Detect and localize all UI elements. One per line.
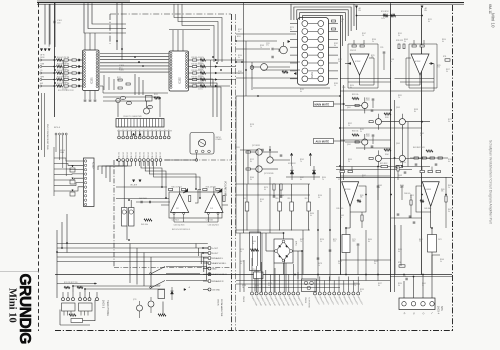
wire CN105 stub <box>203 252 208 254</box>
arrow into IC pin <box>79 66 81 68</box>
node junction 54 <box>66 242 68 244</box>
svg-text:R10 4k7 C11 33k: R10 4k7 C11 33k <box>57 77 69 79</box>
wire bus drop to jack 3 <box>143 253 145 287</box>
wire to center divider <box>206 59 244 61</box>
wire lower run y93 <box>103 92 168 94</box>
wire audio bus 4 <box>57 256 208 258</box>
svg-text:R212: R212 <box>250 159 254 161</box>
wire CN103 pin lead <box>155 131 157 136</box>
wire loop around IC202b <box>409 44 437 88</box>
arrow signal at IC201 pin <box>294 72 296 74</box>
capacitor C651 <box>415 163 418 165</box>
switch S751 lever upper <box>152 267 166 274</box>
wire resistor top lead <box>246 184 248 202</box>
wire nest left-section 1 <box>174 4 222 62</box>
svg-text:C121: C121 <box>117 79 121 81</box>
svg-text:R282: R282 <box>334 43 338 45</box>
arrow vol feed a <box>132 180 134 182</box>
svg-text:R485: R485 <box>338 261 342 263</box>
resistor R651 top <box>420 170 424 172</box>
test point TP101 <box>116 98 120 102</box>
svg-text:R311 R312: R311 R312 <box>380 163 388 165</box>
wire Q collector <box>377 114 379 119</box>
svg-text:FROM MAIN PWB: FROM MAIN PWB <box>220 299 223 317</box>
diode D753 bar <box>171 290 174 292</box>
wire CN104 pin lead <box>118 161 120 166</box>
capacitor C693 <box>413 221 416 223</box>
svg-text:CN GND: CN GND <box>212 289 220 291</box>
node jack contact x97 <box>96 298 99 301</box>
wire CN108 lead up <box>269 275 271 293</box>
svg-text:Q751: Q751 <box>133 299 137 301</box>
arrow vol feed b <box>139 180 141 182</box>
svg-text:C551: C551 <box>236 147 240 149</box>
svg-text:IC130: IC130 <box>92 162 95 169</box>
resistor R701 zigzag <box>383 14 388 16</box>
relay RL751 box <box>250 232 261 271</box>
wire jack lead up <box>67 292 69 298</box>
node CN105 SPEAKER R <box>208 280 211 283</box>
resistor R305 base <box>355 104 359 106</box>
wire diode row tie <box>286 176 320 178</box>
wire ch1 out to ch2 in <box>195 190 201 204</box>
wire switch out 2 <box>166 273 200 275</box>
svg-text:R121: R121 <box>428 19 432 21</box>
svg-text:R534: R534 <box>398 283 402 285</box>
svg-text:R405 100k: R405 100k <box>141 224 148 226</box>
wire resistor bottom lead <box>291 211 293 231</box>
capacitor C101 <box>53 21 55 24</box>
node CN103 pin 7 <box>143 136 146 139</box>
arrow into IC202a <box>349 62 351 64</box>
svg-text:6k: 6k <box>300 91 302 93</box>
resistor R122 <box>72 65 76 67</box>
wire R662 top <box>445 177 447 196</box>
node JACK4 pin 2 <box>411 302 415 306</box>
wire lower run y97 <box>103 96 160 98</box>
svg-text:C413 100p R415: C413 100p R415 <box>174 225 185 227</box>
node CN104 pin 7 <box>143 159 146 162</box>
wire tie y148 <box>356 147 391 149</box>
wire nest 5 <box>303 15 343 46</box>
svg-text:R527: R527 <box>378 283 382 285</box>
svg-text:IC551: IC551 <box>338 179 342 181</box>
volume amp box bottom dash-dot <box>114 267 231 269</box>
node input terminal PHONO <box>40 59 42 61</box>
node PW107 pin 1 <box>55 133 57 135</box>
node junction 3 <box>54 82 56 84</box>
wire input row AUX <box>42 85 56 87</box>
node junction 61 <box>317 274 319 276</box>
resistor R64 cluster <box>438 157 442 159</box>
wire IC101 top pin x95 <box>94 33 96 50</box>
svg-text:7k: 7k <box>260 47 262 49</box>
node CN104 pin 5 <box>134 159 137 162</box>
IC401a base pin circles <box>173 212 175 214</box>
wire <box>197 72 200 74</box>
svg-text:R471: R471 <box>240 261 244 263</box>
node junction 8 <box>142 65 144 67</box>
wire x262 drop <box>261 233 263 292</box>
svg-text:+B2: +B2 <box>424 8 427 10</box>
wire Q202 out <box>267 66 290 68</box>
wire resistor top lead <box>279 184 281 202</box>
wire bus segment 1 <box>54 158 83 161</box>
wire row y88 <box>253 87 330 89</box>
wire jog R671 <box>431 227 432 229</box>
svg-text:R10 4k7 C11 33k: R10 4k7 C11 33k <box>57 64 69 66</box>
wire rail x422 <box>421 8 423 275</box>
capacitor C127 ellipse <box>147 105 152 108</box>
svg-text:R184: R184 <box>448 159 452 161</box>
capacitor C107 <box>94 99 97 101</box>
wire Q emitter <box>401 162 403 167</box>
svg-text:R107: R107 <box>362 33 366 35</box>
node CN108 pin 4 <box>264 292 267 295</box>
resistor R553 power <box>290 202 294 211</box>
svg-text:C341: C341 <box>366 100 370 102</box>
wire CN108 lead up <box>279 275 281 293</box>
resistor R662 <box>445 196 447 202</box>
svg-text:R201: R201 <box>237 36 241 38</box>
transistor Q306 mute <box>399 155 405 161</box>
svg-text:Mini 10: Mini 10 <box>491 13 496 28</box>
node junction 46 <box>345 227 347 229</box>
svg-text:9k: 9k <box>398 177 400 179</box>
capacitor C303 <box>372 98 375 100</box>
svg-text:R513: R513 <box>268 283 272 285</box>
wire to IC101 pin <box>76 66 82 68</box>
wire nest left-section 2 <box>178 4 218 62</box>
wire row y150 stub <box>240 149 258 151</box>
svg-text:R429: R429 <box>448 209 452 211</box>
wire <box>68 66 72 68</box>
node JACK4 pin 3 <box>421 302 425 306</box>
wire bus drop to jack 2 <box>136 248 138 285</box>
svg-text:3k: 3k <box>255 287 257 289</box>
wire Q emitter <box>377 162 379 167</box>
wire bus y287.5 <box>248 287 340 289</box>
wire feedback IC202b <box>406 58 420 85</box>
node jack contact x80 <box>79 298 82 301</box>
bottom dash-dot section border <box>55 330 453 332</box>
pot wiper arrow <box>72 190 73 191</box>
wire jack drop left <box>59 310 61 326</box>
node CN103 pin 1 <box>118 136 121 139</box>
wire row y82 left <box>348 81 391 83</box>
IC201 right pin stubs <box>329 23 339 25</box>
wire x240 drop <box>239 233 241 292</box>
svg-text:R170: R170 <box>400 185 404 187</box>
wire from TP101 <box>117 103 119 117</box>
left dashed section border <box>38 3 40 331</box>
wire resistor top lead <box>308 184 310 202</box>
wire IC651 output down <box>430 206 432 228</box>
svg-text:PHON: PHON <box>40 57 44 59</box>
wire bridge to CN106 <box>301 251 303 279</box>
node input pad CN208 <box>250 66 254 70</box>
wire left feed <box>265 233 267 251</box>
wire CN108 lead up <box>274 268 276 292</box>
svg-text:R408: R408 <box>398 175 402 177</box>
svg-text:1k: 1k <box>378 187 380 189</box>
connector CN106 box <box>302 279 317 292</box>
wire CN109 lead up <box>324 281 326 293</box>
resistor R135 <box>193 85 197 87</box>
svg-text:R394: R394 <box>322 177 326 179</box>
svg-text:4k: 4k <box>428 21 430 23</box>
svg-text:7k: 7k <box>300 161 302 163</box>
motor M101 symbol <box>198 139 205 146</box>
svg-text:R225: R225 <box>437 65 441 67</box>
IC201 internal connect lines <box>308 23 318 25</box>
node CN103 pin 13 <box>167 136 170 139</box>
svg-text:R520: R520 <box>354 283 358 285</box>
wire IC102 top pin x183 <box>182 30 184 51</box>
resistor R302 zigzag <box>352 134 359 136</box>
node input terminal AUX <box>40 85 42 87</box>
node CN105 L-OUT <box>208 247 211 250</box>
potentiometer VR102 <box>70 180 75 184</box>
resistor R145 zigzag <box>200 85 206 87</box>
transistor Q303 mute <box>399 119 405 125</box>
resistor R4102 <box>182 188 186 190</box>
wire relay to connector 2 <box>257 271 259 293</box>
wire CN105 stub <box>203 262 208 264</box>
capacitor C115 <box>78 85 80 88</box>
resistor R182 zigzag <box>158 314 166 316</box>
svg-text:R13 10k C14 47k: R13 10k C14 47k <box>192 57 205 59</box>
capacitor C691 <box>404 171 407 173</box>
capacitor C400 electrolytic body <box>122 208 128 227</box>
wire x303 drop <box>302 230 304 275</box>
wire feed to input L <box>44 4 46 44</box>
wire box around volume amps <box>169 192 222 218</box>
wire x298 drop <box>297 251 299 279</box>
svg-text:33k: 33k <box>441 191 444 193</box>
svg-text:C696 47u: C696 47u <box>404 193 411 195</box>
wire CN104 pin lead <box>122 161 124 166</box>
wire <box>197 79 200 81</box>
capacitor C661 <box>409 215 412 217</box>
wire from label box <box>334 103 346 105</box>
motor internal mark <box>199 141 205 145</box>
wire tie y195 <box>236 194 310 196</box>
resistor R671 tall body <box>428 235 437 253</box>
wire x318 drop <box>317 210 319 281</box>
svg-text:0.22: 0.22 <box>419 241 422 243</box>
resistor R101 zigzag <box>57 59 63 61</box>
motor M101 box <box>190 133 214 155</box>
wire Q collector <box>401 114 403 119</box>
resistor R144 zigzag <box>200 78 206 80</box>
wire CN104 pin lead <box>151 161 153 166</box>
IC201 tone/selector body <box>298 18 329 86</box>
capacitor C125 ellipse <box>120 96 125 99</box>
svg-text:PW107 FROM FRONT PWB: PW107 FROM FRONT PWB <box>46 124 48 150</box>
node input terminal CD <box>40 72 42 74</box>
node junction 36 <box>356 15 358 17</box>
node junction 47 <box>365 194 367 196</box>
svg-text:R421 4.7k C421 R425 4.7k: R421 4.7k C421 R425 4.7k <box>172 229 190 231</box>
node junction 43 <box>421 121 423 123</box>
svg-text:1k: 1k <box>320 241 322 243</box>
wire jack lead up <box>96 292 98 298</box>
node jack contact x63 <box>62 298 65 301</box>
svg-text:R10 4k7 C11 33k: R10 4k7 C11 33k <box>57 70 69 72</box>
svg-text:R142: R142 <box>338 59 342 61</box>
wire arrow drop 1 <box>291 156 293 166</box>
wire R211 feed <box>353 40 355 44</box>
wire x434 drop <box>433 64 435 92</box>
node junction 38 <box>390 109 392 111</box>
node jack contact x73 <box>72 298 75 301</box>
resistor R105 zigzag <box>57 85 63 87</box>
svg-text:R198: R198 <box>390 59 394 61</box>
svg-text:2k: 2k <box>372 41 374 43</box>
wire main left rail x54 <box>54 3 56 117</box>
wire drop from IC101 right <box>108 77 110 90</box>
svg-text:R324: R324 <box>350 85 354 87</box>
svg-text:33k: 33k <box>360 197 363 199</box>
capacitor C401 polarity circle <box>129 210 133 214</box>
svg-text:2k: 2k <box>242 287 244 289</box>
wire IC101 bottom drop <box>89 91 91 100</box>
wire row y230 <box>236 229 310 231</box>
label box MAIN MUTE upper <box>314 102 334 107</box>
svg-text:8k: 8k <box>414 111 416 113</box>
wire resistor bottom lead <box>279 211 281 231</box>
resistor R63 cluster <box>430 157 434 159</box>
wire stair vol 1 <box>141 161 162 187</box>
svg-text:SPEAKER L: SPEAKER L <box>212 257 224 260</box>
wire upper into ch1 <box>116 186 167 188</box>
svg-text:VOLUME AMP: VOLUME AMP <box>224 181 227 197</box>
wire R691 down <box>397 171 399 180</box>
wire RC input row <box>136 201 170 203</box>
wire PW107 pin 2 down <box>58 135 60 160</box>
node junction 40 <box>394 157 396 159</box>
wire bus drop to jack 1 <box>129 244 131 284</box>
svg-text:JACK 4: JACK 4 <box>437 306 440 315</box>
svg-text:1k: 1k <box>340 21 342 23</box>
wire row y70 <box>262 69 300 71</box>
svg-text:R226: R226 <box>320 239 324 241</box>
node junction 60 <box>294 274 296 276</box>
svg-text:5k: 5k <box>440 261 442 263</box>
capacitor C114 <box>78 78 80 81</box>
wire diode bottom <box>291 174 293 180</box>
wire to center divider <box>206 79 237 81</box>
wire nest 1 <box>291 4 354 26</box>
wire row y82 right <box>400 81 434 83</box>
svg-text:R541: R541 <box>422 283 426 285</box>
svg-text:R359: R359 <box>348 159 352 161</box>
svg-text:8k: 8k <box>378 285 380 287</box>
node CN103 pin 5 <box>134 136 137 139</box>
wire Q201 collector <box>283 42 285 46</box>
wire CN103 tie line <box>117 130 172 132</box>
resistor R581 <box>246 151 250 153</box>
wire interconnect row 1 <box>100 53 169 55</box>
arrow up D551 line <box>290 153 292 155</box>
wire fan vertical tie <box>63 60 65 86</box>
wire flag lead <box>217 188 222 193</box>
node JACK4 pin 1 <box>402 302 406 306</box>
wire jack top bus <box>57 283 97 285</box>
wire bus drop to jack 4 <box>150 257 152 288</box>
svg-text:R310: R310 <box>442 39 446 41</box>
switch S751 lever lower <box>152 281 166 288</box>
svg-text:R478: R478 <box>318 263 322 265</box>
CN102 pin hatch lines <box>118 119 120 128</box>
capacitor C215 between rails <box>383 51 386 53</box>
wire JACK4 pin1 up <box>403 281 405 298</box>
svg-text:2k: 2k <box>448 187 450 189</box>
node input terminal TUNER <box>40 66 42 68</box>
wire jack drop right <box>94 300 96 321</box>
wire dogleg IC102 to lower bus <box>189 79 213 117</box>
svg-text:R464: R464 <box>252 241 256 243</box>
resistor R563 zigzag <box>357 200 361 202</box>
wire Q collector <box>401 150 403 155</box>
node junction 12 <box>220 69 222 71</box>
wire left rail of right section <box>235 96 237 233</box>
svg-text:8k: 8k <box>260 201 262 203</box>
node CN106 pin 2 <box>310 281 314 285</box>
wire CN108 lead up <box>288 275 290 293</box>
node junction 13 <box>116 159 118 161</box>
node switch pivot 1 <box>150 273 152 275</box>
node CN104 pin 8 <box>147 159 150 162</box>
wire R212 feed <box>363 40 365 44</box>
svg-text:R731: R731 <box>443 56 447 58</box>
left margin fold line <box>0 271 39 273</box>
wire CN108 lead up <box>256 266 258 292</box>
node junction 48 <box>377 166 379 168</box>
capacitor C652 <box>435 163 438 165</box>
wire JACK4 pin3 up <box>422 275 424 299</box>
IC201 transistor circles right column <box>318 21 324 27</box>
wire stair 2 <box>198 248 200 256</box>
wire bus y280.5 <box>236 280 390 282</box>
capacitor C304 <box>372 134 375 136</box>
node junction 62 <box>345 274 347 276</box>
svg-text:FM OSC: FM OSC <box>156 151 158 158</box>
wire jack lead up <box>89 292 91 298</box>
arrow flag at IC401a apex <box>183 188 188 193</box>
svg-text:IC651: IC651 <box>426 189 432 191</box>
wire vertical x143 <box>142 80 144 95</box>
wire stair vol 2 <box>145 161 166 198</box>
svg-text:R373: R373 <box>264 187 268 189</box>
node CN109 pin 7 <box>342 292 345 295</box>
wire jack bottom <box>60 324 90 326</box>
pot wiper arrow <box>72 178 73 179</box>
svg-text:8k: 8k <box>290 29 292 31</box>
wire row y218 <box>391 217 422 219</box>
svg-text:9k: 9k <box>420 135 422 137</box>
svg-text:C215: C215 <box>380 47 384 49</box>
resistor R180 box <box>71 319 83 323</box>
svg-text:C671: C671 <box>438 239 442 241</box>
wire switch out 3 <box>166 280 207 282</box>
wire CN108 lead up <box>260 262 262 292</box>
wire to center divider <box>206 85 231 87</box>
svg-text:1/2: 1/2 <box>210 208 213 210</box>
bridge node circle <box>282 259 285 262</box>
resistor R691 <box>397 166 399 171</box>
